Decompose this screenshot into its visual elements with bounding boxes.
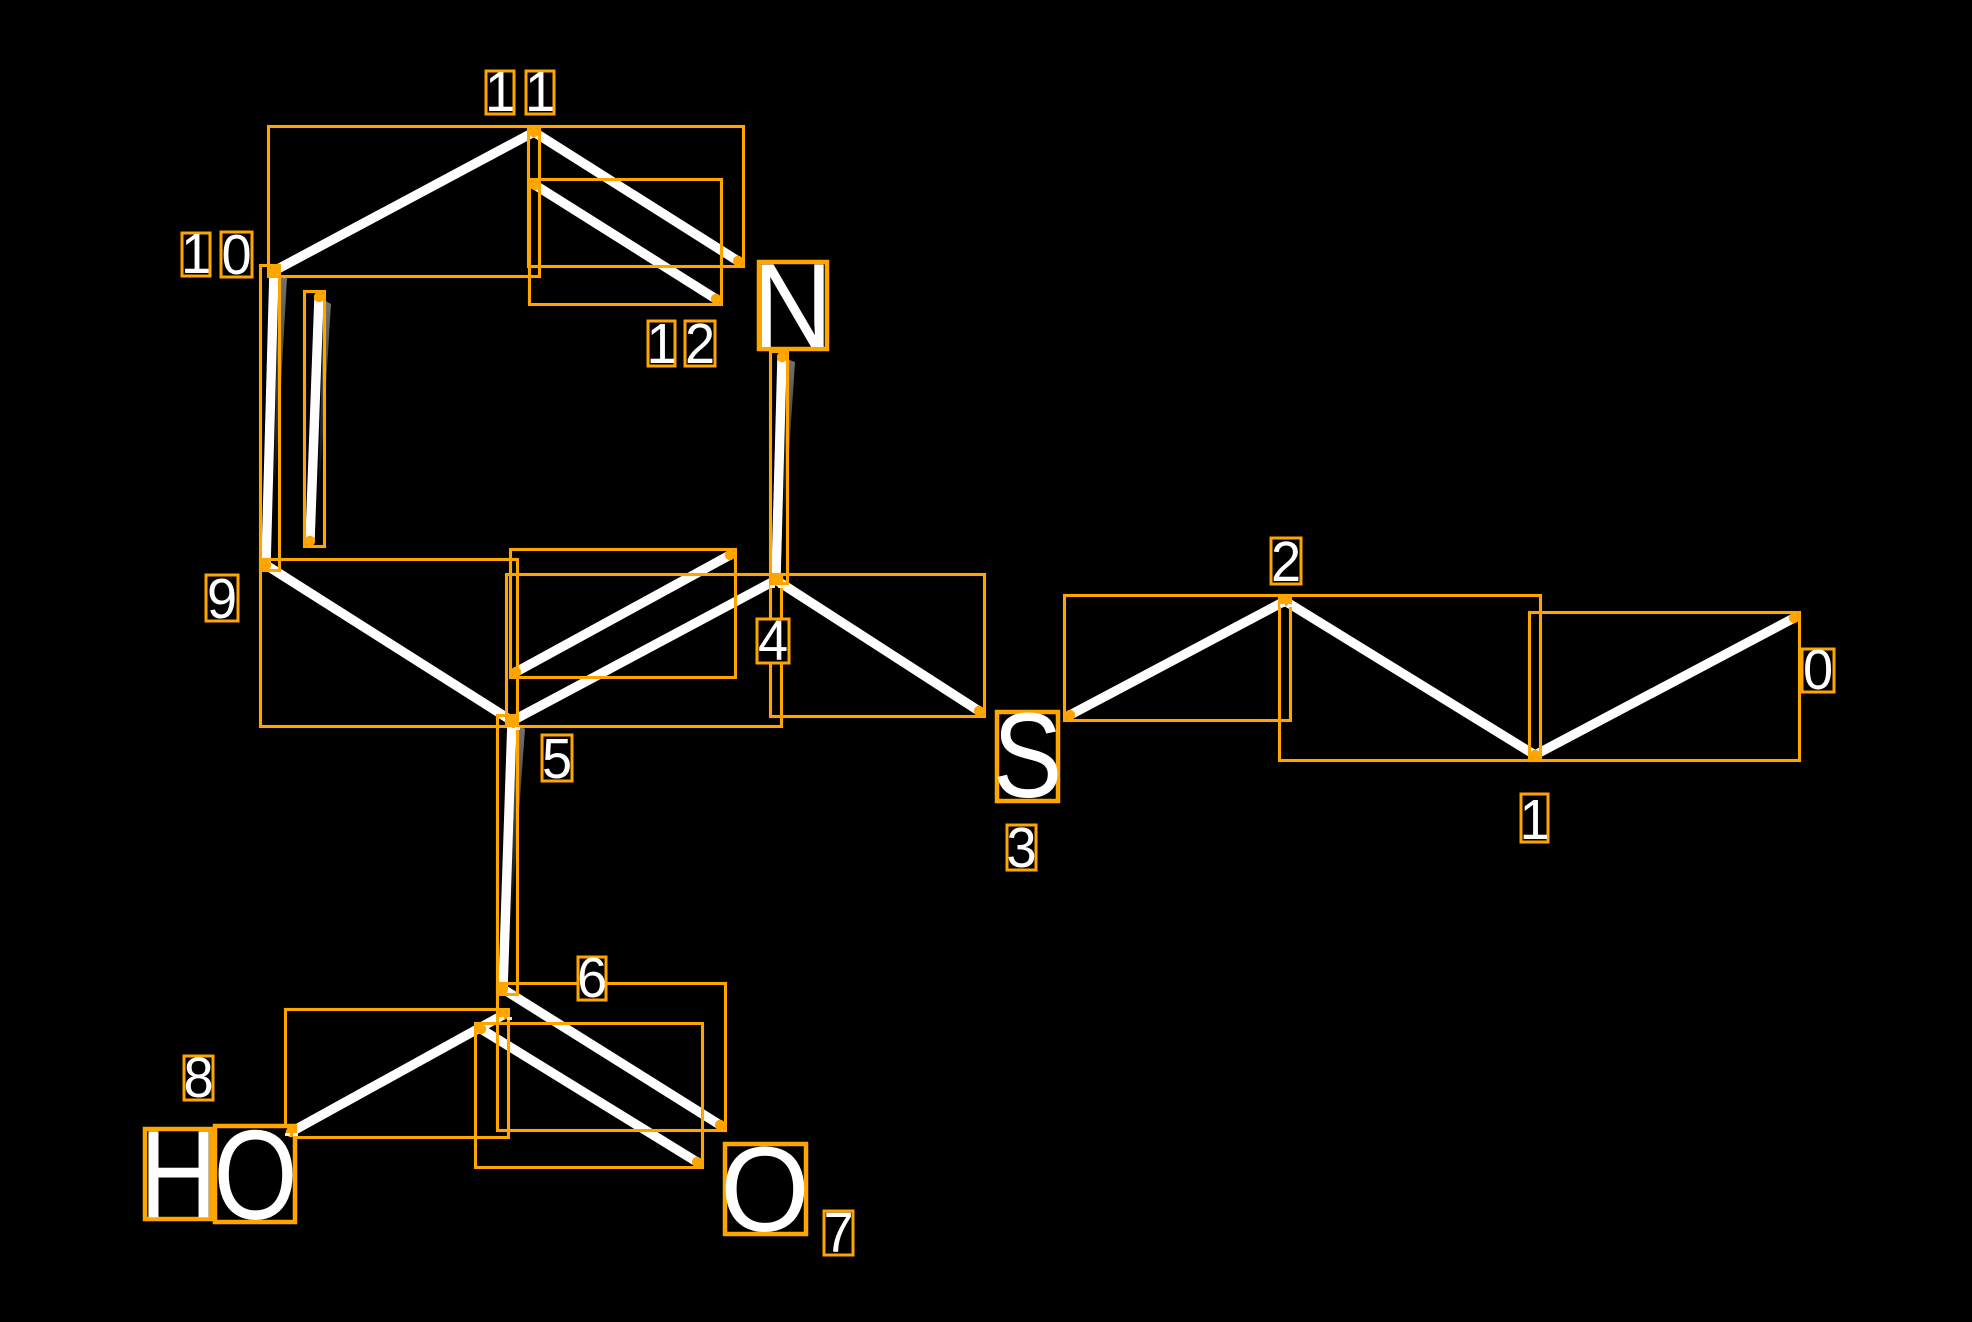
bond 5 inner line (516, 555, 730, 672)
svg-text:3: 3 (1006, 816, 1036, 880)
bond index label 8 at (184,1056) (184, 1056, 213, 1100)
svg-text:0: 0 (1803, 638, 1833, 702)
bond 3 line (S3-C4) (776, 580, 979, 711)
svg-text:8: 8 (183, 1046, 213, 1110)
smear right of bond 10 inner (317, 300, 331, 530)
svg-text:9: 9 (207, 567, 237, 631)
bond 2 line (C2-S3) (1070, 601, 1285, 715)
bond index label 1 at (526,71) (526, 71, 554, 114)
bond 12 main line (N-C11) (534, 132, 738, 261)
svg-text:1: 1 (1519, 788, 1549, 852)
atom label O box (725, 1144, 806, 1234)
svg-text:1: 1 (525, 60, 555, 124)
bbox of bond 10 inner line (305, 292, 325, 547)
svg-text:2: 2 (685, 312, 715, 376)
bond index label 2 at (1271,538) (1271, 538, 1301, 584)
bbox of bond 7 upper line (C6=O7) (498, 984, 726, 1131)
bbox of bond 2 line (C2-S3) (1065, 596, 1291, 721)
bond 7 upper line (C6=O7) (503, 989, 720, 1125)
bond 11 line (C11-C10) (274, 132, 534, 271)
atom label S box (997, 712, 1058, 801)
bond 10 inner line (310, 297, 319, 541)
bbox of bond 4 line (C4-N5) (771, 352, 788, 584)
svg-text:6: 6 (577, 946, 607, 1010)
svg-text:4: 4 (758, 609, 788, 673)
bond 4 line (C4-N5) (776, 357, 782, 578)
bond index label 1 at (1521,794) (1521, 794, 1548, 842)
atom label O box (215, 1126, 295, 1222)
bond 8 line (C6-O8H) (291, 1015, 503, 1132)
bond 6 line (C5-C6) (503, 721, 512, 989)
atom endpoint dots (1789, 613, 1799, 623)
svg-text:O: O (213, 1105, 297, 1247)
bond 1 line (C1-C2) (1285, 601, 1535, 755)
bond index label 1 at (182,233) (182, 233, 210, 276)
svg-text:7: 7 (823, 1201, 853, 1265)
svg-text:N: N (752, 238, 832, 373)
svg-text:H: H (140, 1105, 218, 1244)
bbox of bond 3 line (S3-C4) (771, 575, 985, 717)
svg-text:O: O (720, 1122, 809, 1257)
smear right of bond 10 main (272, 274, 287, 545)
bond index label 7 at (824,1211) (824, 1211, 853, 1255)
bond index label 6 at (578,957) (578, 957, 606, 1000)
bond 10 main line (C10-C9) (266, 271, 274, 565)
bbox of bond 11 line (C11-C10) (269, 127, 540, 277)
bbox of bond 5 main line (C5-C4) (507, 575, 782, 727)
svg-text:5: 5 (542, 727, 572, 791)
bond 0 line (C0-C1) (1535, 618, 1794, 755)
bond index label 0 at (1802,649) (1802, 649, 1834, 692)
svg-text:2: 2 (1271, 530, 1301, 594)
bond index label 9 at (206,575) (206, 575, 238, 621)
bond 12 inner line (535, 185, 716, 299)
svg-text:1: 1 (181, 222, 211, 286)
bond index label 1 at (486,71) (486, 71, 514, 114)
bbox of bond 8 line (C6-O8H) (286, 1010, 509, 1138)
svg-text:1: 1 (485, 60, 515, 124)
tiny white tick marks near junction dots (770, 585, 775, 588)
bond 5 main line (C5-C4) (512, 580, 776, 721)
svg-text:1: 1 (646, 312, 676, 376)
atom label N box (759, 262, 827, 349)
bbox of bond 5 inner line (511, 550, 736, 678)
bond index label 4 at (757,619) (757, 619, 789, 663)
svg-text:S: S (993, 688, 1062, 823)
atom label H box (145, 1129, 211, 1219)
bbox of bond 1 line (C1-C2) (1280, 596, 1541, 761)
bbox of bond 12 main line (N-C11) (529, 127, 744, 267)
bbox of bond 0 line (C0-C1) (1530, 613, 1800, 761)
bbox of bond 10 main line (C10-C9) (261, 266, 280, 571)
bbox of bond 9 line (C9-C5) (261, 560, 518, 727)
bond index label 3 at (1007,825) (1007, 825, 1036, 870)
bond 9 line (C9-C5) (266, 565, 512, 721)
bbox of bond 7 lower line (476, 1024, 703, 1168)
bbox of bond 12 inner line (530, 180, 722, 305)
bond index label 5 at (542,735) (542, 735, 572, 781)
bond index label 1 at (648,321) (648, 321, 675, 366)
bond index label 2 at (685,321) (685, 321, 715, 366)
smear right of bond 6 line (508, 725, 525, 965)
svg-text:0: 0 (221, 223, 251, 287)
bbox of bond 6 line (C5-C6) (498, 716, 518, 995)
smear right of bond 4 line (782, 359, 795, 560)
bond index label 0 at (221,232) (221, 232, 252, 277)
bond 7 lower line (481, 1029, 697, 1162)
